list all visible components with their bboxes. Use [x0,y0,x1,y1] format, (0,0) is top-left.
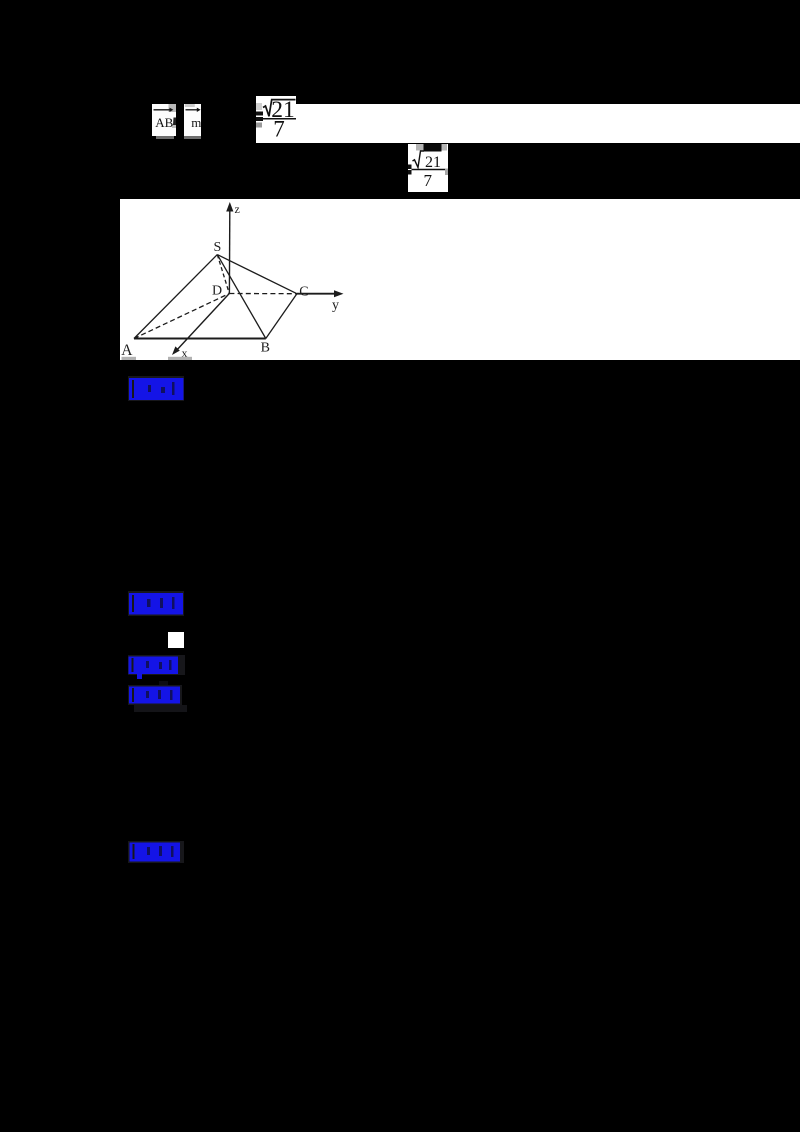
svg-text:y: y [332,298,339,313]
edge A-D dashed [134,294,229,339]
equation image sqrt(21)/7 first [256,96,296,143]
svg-text:AB: AB [155,115,173,130]
blue highlighted tag 1 [128,376,185,401]
y axis dashed D to C [229,293,297,295]
edge S-C [217,255,297,294]
y axis solid part [296,293,338,295]
small white image placeholder [168,632,184,648]
z axis [228,210,230,294]
svg-text:D: D [212,284,222,299]
svg-text:7: 7 [423,171,432,190]
grey smudge bars (tops of text below) [121,357,136,360]
equation image sqrt(21)/7 second [408,144,449,192]
edge S-A [134,255,217,339]
tag3 descender [137,674,143,679]
grey smudge under tag 4 [134,705,187,712]
svg-text:m: m [191,115,200,130]
faint dark mark between tags [159,681,168,689]
svg-text:z: z [234,202,239,216]
vector m equation image [184,104,201,136]
blue highlighted tag 4 [128,685,182,705]
blue highlighted tag 5 [128,841,184,863]
edge B-C [265,294,296,339]
grey text-top smudge under m box [184,136,201,139]
svg-text:7: 7 [273,116,285,141]
svg-text:21: 21 [425,154,441,171]
blue highlighted tag 2 [128,591,184,616]
edge S-D dashed [217,255,229,294]
blue highlighted tag 3 [128,655,185,675]
svg-text:C: C [299,285,308,300]
grey text-top smudge under AB box [156,136,174,139]
x axis [175,294,229,353]
white selection strip row1 [296,104,800,143]
edge A-B [134,338,266,340]
vector AB equation image [152,104,177,136]
svg-text:A: A [121,342,133,359]
diagram image: pyramid S-ABCD with axes [120,199,800,360]
svg-text:S: S [213,240,221,255]
edge S-B [217,255,265,339]
svg-text:B: B [260,341,269,356]
